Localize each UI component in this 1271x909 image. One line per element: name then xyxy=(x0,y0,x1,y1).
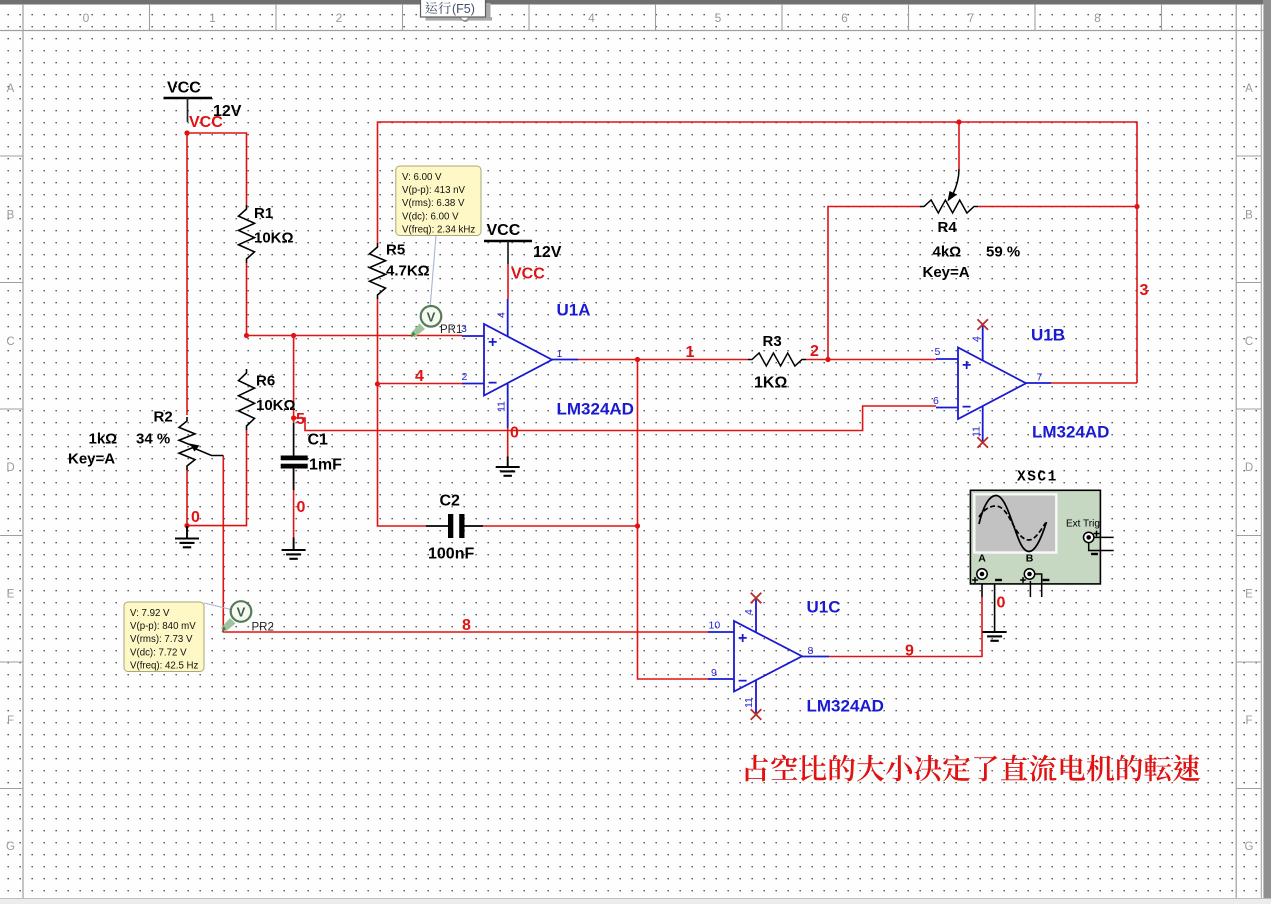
capacitor C2 xyxy=(426,514,483,538)
op-amp U1B xyxy=(936,325,1051,443)
wire R4 right to vertical x=1137 xyxy=(978,206,1137,208)
svg-text:PR1: PR1 xyxy=(440,324,462,336)
wire R1 bottom to node at y=335.5 xyxy=(246,263,248,336)
svg-text:100nF: 100nF xyxy=(428,546,474,563)
X mark U1B pin4 xyxy=(977,319,988,330)
svg-text:F: F xyxy=(7,715,14,727)
svg-text:6: 6 xyxy=(841,11,848,25)
svg-text:3: 3 xyxy=(1140,282,1149,299)
svg-text:C: C xyxy=(1245,336,1253,348)
svg-text:0: 0 xyxy=(997,595,1006,612)
svg-text:1: 1 xyxy=(686,344,695,361)
wire VCC node to R2 top (vertical x=187) xyxy=(186,133,188,416)
svg-text:0: 0 xyxy=(191,509,200,526)
svg-text:C1: C1 xyxy=(308,432,329,449)
svg-text:0: 0 xyxy=(297,499,306,516)
junction node 0 at R2 xyxy=(184,523,189,528)
svg-text:2: 2 xyxy=(336,11,343,25)
svg-text:E: E xyxy=(7,589,15,601)
potentiometer R2 xyxy=(179,417,223,470)
wire U1C output to oscilloscope A (net 9) xyxy=(829,597,982,657)
junction C2/net1 xyxy=(635,523,640,528)
svg-text:R2: R2 xyxy=(154,409,173,426)
svg-text:(F5): (F5) xyxy=(452,2,475,16)
svg-text:V(p-p): 413 nV: V(p-p): 413 nV xyxy=(402,185,466,196)
ground under R2 xyxy=(175,526,199,547)
wire net 3 vertical and top horizontal to R5 xyxy=(378,122,1138,383)
svg-text:D: D xyxy=(1245,462,1253,474)
resistor R1 xyxy=(239,205,255,263)
probe PR1 measurement box xyxy=(396,166,481,309)
power VCC symbol 2 xyxy=(484,222,532,264)
svg-text:+: + xyxy=(738,630,747,647)
ground U1A pin11 xyxy=(496,457,520,476)
svg-text:F: F xyxy=(1245,715,1252,727)
svg-text:VCC: VCC xyxy=(487,222,521,239)
svg-text:VCC: VCC xyxy=(167,80,201,97)
wire net1 vertical down to U1C pin9 (-) xyxy=(638,360,709,680)
junction VCC1 xyxy=(184,130,189,135)
svg-text:11: 11 xyxy=(496,401,508,412)
svg-text:11: 11 xyxy=(743,697,755,708)
svg-text:V: 6.00 V: V: 6.00 V xyxy=(402,172,442,183)
wire R3 right to node 2 and U1B pin5 xyxy=(806,359,936,361)
wire R5 bottom to node 4 xyxy=(377,299,379,384)
svg-text:G: G xyxy=(6,841,15,853)
svg-text:A: A xyxy=(7,83,15,95)
wire R2 wiper to PR2 corner and U1C pin10 (net 8) xyxy=(223,456,708,633)
svg-text:V(freq): 2.34 kHz: V(freq): 2.34 kHz xyxy=(402,224,475,235)
svg-text:R3: R3 xyxy=(763,333,782,350)
junction R4 right on net 3 xyxy=(1134,204,1139,209)
svg-text:1kΩ: 1kΩ xyxy=(89,431,118,448)
resistor R3 xyxy=(748,353,806,366)
X mark U1C pin4 xyxy=(751,593,762,604)
ground at oscilloscope xyxy=(983,574,1007,641)
wire R4 wiper drop (red part) xyxy=(958,122,960,169)
svg-text:Key=A: Key=A xyxy=(68,451,115,468)
wire C2 right to net1 vertical xyxy=(483,525,638,527)
svg-text:LM324AD: LM324AD xyxy=(807,697,884,716)
ground under C1 xyxy=(282,538,306,559)
svg-text:9: 9 xyxy=(711,667,717,679)
svg-text:C: C xyxy=(6,336,14,348)
svg-text:12V: 12V xyxy=(533,244,562,261)
svg-text:B: B xyxy=(7,210,15,222)
svg-text:−: − xyxy=(738,673,747,690)
svg-text:8: 8 xyxy=(1094,11,1101,25)
svg-text:A: A xyxy=(978,553,986,565)
svg-text:B: B xyxy=(1026,553,1034,565)
svg-text:G: G xyxy=(1245,841,1254,853)
resistor R5 xyxy=(370,243,386,299)
svg-text:10KΩ: 10KΩ xyxy=(254,230,294,247)
svg-text:V(rms): 7.73 V: V(rms): 7.73 V xyxy=(130,634,193,645)
svg-text:U1B: U1B xyxy=(1031,326,1065,345)
X mark U1B pin11 xyxy=(977,437,988,448)
svg-text:V(dc): 6.00 V: V(dc): 6.00 V xyxy=(402,211,459,222)
svg-text:5: 5 xyxy=(296,411,305,428)
svg-text:VCC: VCC xyxy=(189,114,223,131)
svg-text:34 %: 34 % xyxy=(136,431,170,448)
wire U1B output to net3 vertical xyxy=(1051,382,1137,384)
op-amp U1A xyxy=(462,299,578,428)
junction R4 wiper on top wire xyxy=(956,119,961,124)
svg-text:1KΩ: 1KΩ xyxy=(754,375,787,392)
wire U1A pin11 to ground (red part) xyxy=(507,428,509,457)
svg-text:V(rms): 6.38 V: V(rms): 6.38 V xyxy=(402,198,465,209)
svg-text:4: 4 xyxy=(743,609,755,615)
wire VCC2 red segment to U1A pin4 xyxy=(507,264,509,299)
svg-text:−: − xyxy=(488,375,497,392)
svg-text:8: 8 xyxy=(462,617,471,634)
svg-text:−: − xyxy=(962,399,971,416)
svg-text:5: 5 xyxy=(715,11,722,25)
svg-text:Key=A: Key=A xyxy=(923,264,970,281)
svg-text:V(p-p): 840 mV: V(p-p): 840 mV xyxy=(130,621,196,632)
annotation text: duty cycle determines DC motor speed xyxy=(746,755,1201,782)
svg-text:LM324AD: LM324AD xyxy=(557,400,634,419)
junction C1 branch xyxy=(291,333,296,338)
svg-text:4: 4 xyxy=(971,336,983,342)
wire node 4 down to C2 left xyxy=(378,384,427,526)
X mark U1C pin11 xyxy=(751,709,762,720)
svg-text:PR2: PR2 xyxy=(252,622,274,634)
junction R1/R6/wire xyxy=(244,333,249,338)
svg-text:V: V xyxy=(237,605,246,620)
svg-text:U1C: U1C xyxy=(807,598,841,617)
probe PR1 xyxy=(411,306,442,338)
svg-text:V: V xyxy=(427,309,436,324)
svg-text:4kΩ: 4kΩ xyxy=(933,244,962,261)
svg-text:10KΩ: 10KΩ xyxy=(256,397,296,414)
op-amp U1C xyxy=(708,599,829,715)
resistor R6 xyxy=(239,369,255,430)
svg-text:4.7KΩ: 4.7KΩ xyxy=(386,263,430,280)
svg-text:R5: R5 xyxy=(386,242,405,259)
svg-text:7: 7 xyxy=(968,11,975,25)
svg-text:R4: R4 xyxy=(938,219,958,236)
svg-text:1: 1 xyxy=(209,11,216,25)
svg-text:R1: R1 xyxy=(254,205,273,222)
junction node 2 xyxy=(825,357,830,362)
svg-text:0: 0 xyxy=(510,425,519,442)
svg-text:4: 4 xyxy=(496,312,508,318)
svg-text:1: 1 xyxy=(557,348,563,360)
power VCC symbol 1 xyxy=(164,80,213,123)
wire VCC node to R1 top xyxy=(187,133,247,205)
svg-text:V(dc): 7.72 V: V(dc): 7.72 V xyxy=(130,647,187,658)
svg-text:10: 10 xyxy=(709,620,721,632)
wire scope A black lead down xyxy=(981,579,983,597)
junction node 5 xyxy=(291,415,296,420)
svg-text:+: + xyxy=(962,357,971,374)
wire node 5 to U1B pin6 (long net 5) xyxy=(294,406,936,431)
svg-text:11: 11 xyxy=(971,426,983,437)
svg-text:2: 2 xyxy=(810,343,819,360)
svg-text:B: B xyxy=(1245,210,1253,222)
svg-text:Ext Trig: Ext Trig xyxy=(1066,519,1100,530)
probe PR2 measurement box xyxy=(124,602,233,672)
svg-text:E: E xyxy=(1245,589,1253,601)
svg-text:2: 2 xyxy=(462,371,468,383)
probe PR2 xyxy=(221,601,251,632)
tooltip Run (F5) xyxy=(421,0,493,21)
svg-text:0: 0 xyxy=(83,11,90,25)
svg-text:6: 6 xyxy=(933,395,939,407)
capacitor C1 xyxy=(281,423,308,490)
junction U1A output net1 xyxy=(635,357,640,362)
svg-text:59 %: 59 % xyxy=(986,244,1020,261)
svg-text:9: 9 xyxy=(905,643,914,660)
svg-text:R6: R6 xyxy=(256,373,275,390)
svg-text:VCC: VCC xyxy=(511,266,545,283)
svg-text:4: 4 xyxy=(588,11,595,25)
potentiometer R4 xyxy=(920,169,978,213)
svg-text:XSC1: XSC1 xyxy=(1017,470,1058,486)
svg-text:U1A: U1A xyxy=(557,301,591,320)
svg-text:A: A xyxy=(1245,83,1253,95)
wire C1 top branch (x=293.6) xyxy=(293,336,295,424)
oscilloscope XSC1 xyxy=(970,490,1113,597)
wire node 2 up to R4 left xyxy=(828,207,920,360)
svg-text:LM324AD: LM324AD xyxy=(1032,423,1109,442)
svg-text:5: 5 xyxy=(935,346,941,358)
svg-text:+: + xyxy=(488,334,497,351)
svg-text:V(freq): 42.5 Hz: V(freq): 42.5 Hz xyxy=(130,660,199,671)
svg-text:C2: C2 xyxy=(440,493,461,510)
svg-text:4: 4 xyxy=(415,368,424,385)
wire R6 bottom to R2 bottom node 0 xyxy=(187,430,247,526)
svg-text:1mF: 1mF xyxy=(309,457,342,474)
wire node 4 to U1A pin2 (-) xyxy=(378,383,463,385)
wire R2 bottom to node 0 xyxy=(186,470,188,526)
wire U1A output to R3 (net 1) xyxy=(578,359,748,361)
wire C1 bottom to ground xyxy=(293,469,295,538)
wire node y=335.5 to U1A pin3 (+) xyxy=(247,335,463,337)
svg-text:V: 7.92 V: V: 7.92 V xyxy=(130,608,170,619)
junction node 4 xyxy=(375,381,380,386)
svg-text:8: 8 xyxy=(808,645,814,657)
svg-text:D: D xyxy=(6,462,14,474)
svg-text:7: 7 xyxy=(1037,372,1043,384)
